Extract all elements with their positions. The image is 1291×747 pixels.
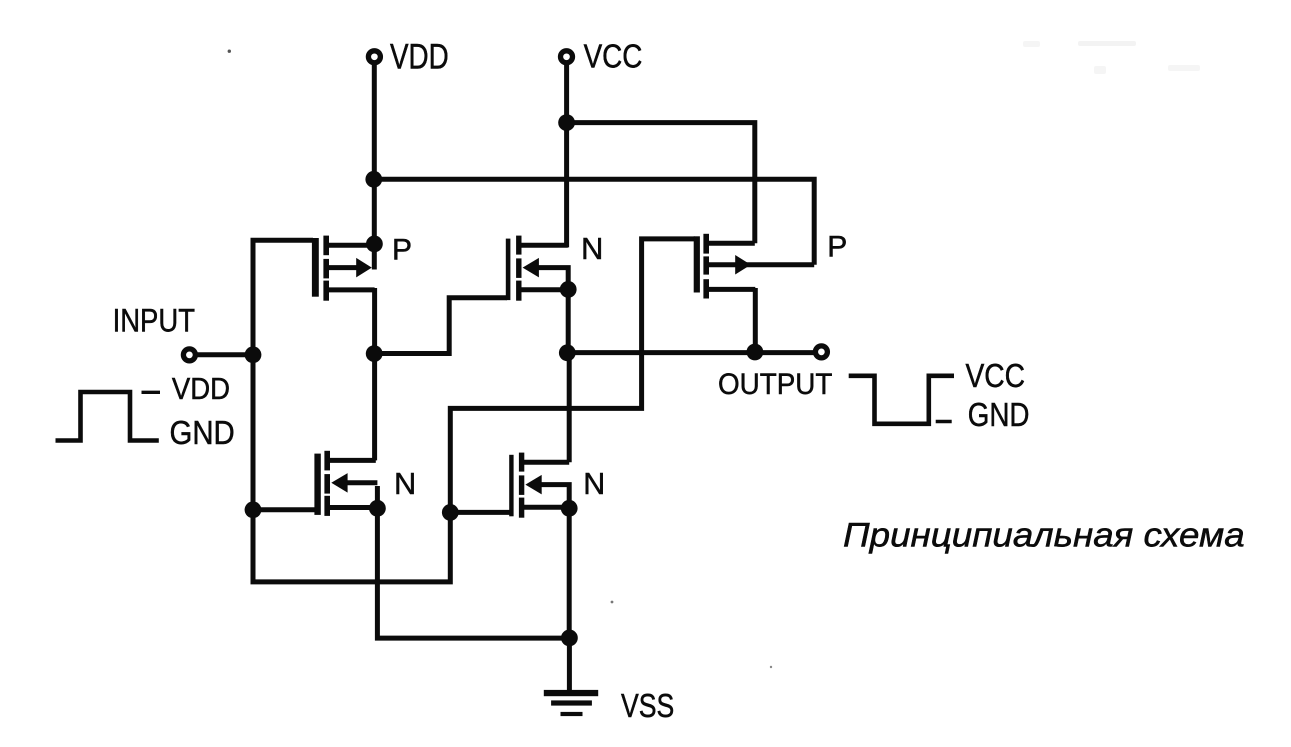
wire VDD stem	[372, 63, 377, 270]
wire ground stem	[567, 638, 572, 692]
node VDD rail junction	[365, 171, 382, 188]
wire VCC stem	[564, 63, 569, 248]
smudge	[1094, 66, 1106, 74]
node VCC rail junction	[558, 114, 575, 131]
wire N1 gate lead	[253, 507, 316, 512]
svg-text:VCC: VCC	[966, 357, 1026, 394]
svg-text:GND: GND	[968, 396, 1030, 433]
svg-text:N: N	[581, 231, 603, 266]
svg-text:INPUT: INPUT	[113, 303, 196, 339]
node N1 source	[369, 500, 386, 517]
svg-text:N: N	[583, 467, 605, 501]
terminal INPUT	[183, 349, 195, 361]
speck	[611, 601, 614, 604]
wire N1 source to VSS rail	[377, 486, 569, 638]
wire N3 drain up to output	[567, 353, 572, 463]
node P1 drain at VDD	[366, 236, 383, 253]
svg-text:N: N	[394, 466, 416, 501]
wire VCC to P3 drain	[567, 123, 755, 244]
wire input net: gates of P1,N1,N3,P3	[253, 239, 695, 582]
node N3 source	[561, 500, 578, 517]
svg-text:P: P	[392, 234, 412, 267]
speck	[770, 666, 772, 668]
node N1 gate tap	[245, 501, 262, 518]
node input gate tap	[245, 346, 262, 363]
ground symbol VSS	[544, 690, 598, 716]
smudge	[1078, 41, 1136, 46]
transistor P1	[312, 236, 375, 301]
svg-text:VCC: VCC	[584, 37, 643, 74]
input waveform pulse	[56, 392, 159, 441]
svg-text:GND: GND	[170, 414, 235, 451]
transistor N1	[314, 451, 377, 516]
wire VDD rail to P3 body	[372, 179, 815, 264]
smudge	[1168, 65, 1200, 71]
terminal VDD	[368, 51, 380, 63]
svg-text:Принципиальная схема: Принципиальная схема	[843, 517, 1245, 555]
svg-text:VDD: VDD	[172, 372, 230, 406]
output waveform pulse	[849, 376, 954, 424]
svg-text:OUTPUT: OUTPUT	[718, 368, 832, 401]
input waveform VDD tick	[142, 391, 161, 394]
output waveform GND tick	[936, 420, 952, 423]
wire N3 gate lead	[450, 510, 510, 515]
node P3 source at output	[747, 344, 764, 361]
svg-text:P: P	[827, 231, 847, 264]
terminal VCC	[561, 51, 573, 63]
wire node A to N2 gate	[374, 298, 507, 354]
node N2 source	[560, 281, 577, 298]
svg-text:VSS: VSS	[621, 688, 674, 725]
node VSS junction	[561, 630, 578, 647]
smudge	[1023, 41, 1040, 47]
node output left	[559, 344, 576, 361]
node N3 gate tap	[442, 504, 459, 521]
svg-text:VDD: VDD	[390, 38, 449, 77]
transistor N3	[509, 453, 569, 638]
speck	[228, 50, 231, 53]
wire P3 source down to output	[753, 288, 758, 353]
transistor N2	[506, 236, 568, 353]
terminal OUTPUT	[815, 346, 827, 358]
node A (inverter output)	[366, 345, 383, 362]
transistor P3	[694, 234, 815, 299]
wire P1 drain to node A to N1 drain	[372, 288, 377, 460]
wire INPUT lead	[196, 352, 254, 357]
wire OUTPUT row	[567, 350, 815, 355]
